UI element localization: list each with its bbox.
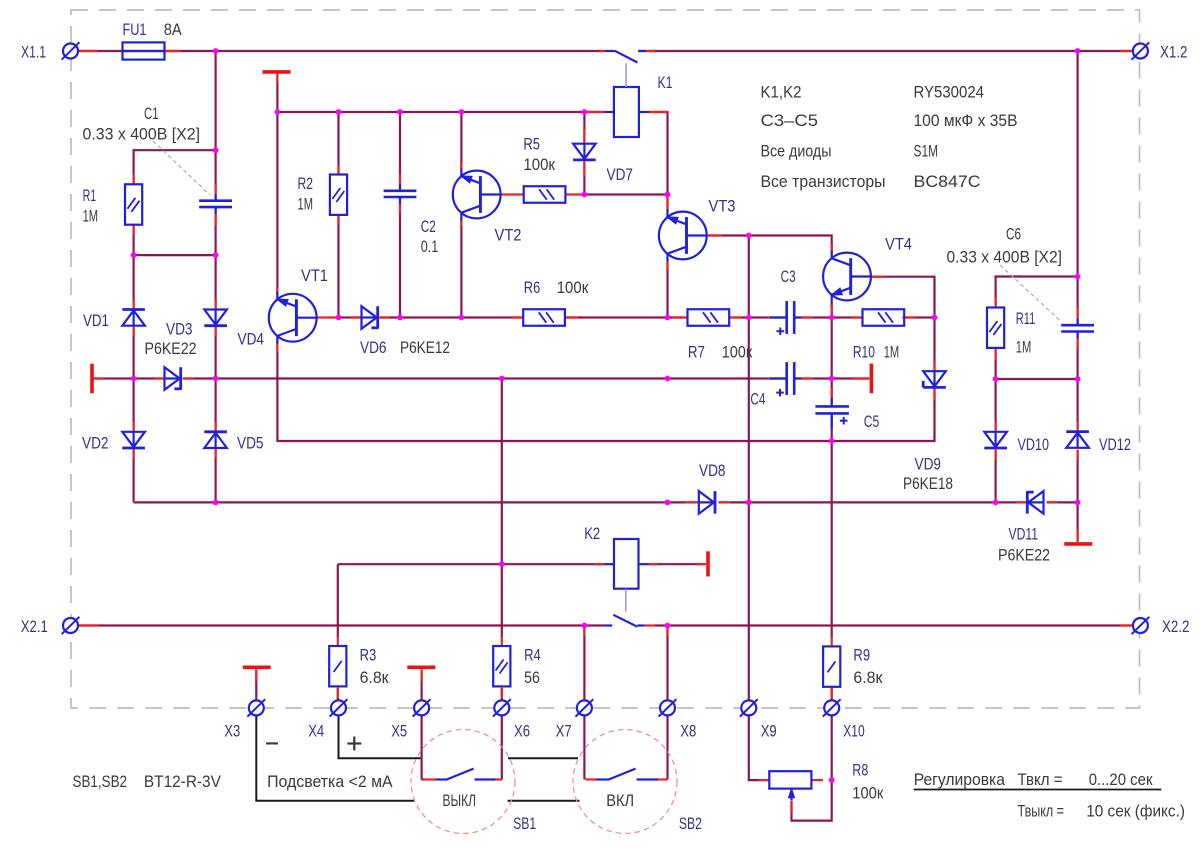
label Podsvetka: [267, 772, 393, 791]
svg-text:0.33 x 400В [X2]: 0.33 x 400В [X2]: [947, 248, 1063, 267]
label K1: [658, 73, 673, 92]
wire VT3 base row y=235.5 to VT4 collector: [707, 236, 832, 254]
label X2.1: [21, 617, 48, 636]
resistor R11: [987, 308, 1004, 348]
label R9 value: [853, 668, 883, 687]
svg-text:R3: R3: [360, 646, 377, 665]
wire X7 column x=584.4: [583, 626, 585, 701]
label R1: [83, 186, 97, 205]
resistor R5: [524, 186, 566, 203]
resistor R2: [330, 175, 347, 215]
resistor R4: [493, 646, 510, 686]
label R5 value: [523, 155, 555, 174]
svg-text:ВКЛ: ВКЛ: [606, 791, 634, 810]
svg-text:Твыкл =: Твыкл =: [1018, 803, 1065, 821]
label R3 value: [360, 668, 390, 687]
plus sign C3: [777, 327, 785, 335]
svg-text:VD6: VD6: [360, 338, 387, 357]
wire X5 stem: [421, 669, 423, 700]
label plus: [347, 737, 361, 751]
label R3: [360, 646, 377, 665]
terminal X5: [413, 699, 431, 716]
wire R3 to X4: [337, 688, 339, 700]
svg-text:VD2: VD2: [82, 434, 109, 453]
diode VD7: [573, 144, 596, 160]
svg-text:VD8: VD8: [699, 461, 726, 480]
wire column x=400 (C2): [399, 112, 401, 318]
transistor VT2: [453, 169, 501, 221]
svg-text:Все диоды: Все диоды: [761, 143, 832, 161]
label R9: [853, 646, 870, 665]
label R5: [523, 135, 540, 154]
svg-text:100к: 100к: [852, 784, 883, 803]
label X1.2: [1160, 43, 1188, 62]
svg-text:S1M: S1M: [914, 143, 939, 161]
svg-text:C6: C6: [1006, 225, 1021, 244]
terminal X3: [247, 699, 265, 716]
label VD10: [1018, 435, 1050, 454]
svg-text:X8: X8: [680, 722, 696, 741]
wire row y=379 right: [996, 378, 1078, 380]
label VD3: [166, 320, 193, 339]
resistor R1: [125, 184, 142, 224]
svg-text:R11: R11: [1016, 309, 1036, 328]
svg-text:X2.1: X2.1: [21, 617, 48, 636]
capacitor C5 (electrolytic): [815, 398, 849, 428]
svg-text:ВЫКЛ: ВЫКЛ: [443, 791, 477, 810]
svg-text:RY530024: RY530024: [914, 84, 985, 102]
svg-text:X6: X6: [514, 722, 530, 741]
resistor R6: [523, 309, 565, 326]
label R11: [1016, 309, 1036, 328]
capacitor C2: [384, 184, 417, 203]
capacitor C4: [770, 362, 802, 395]
power bar above VT1 rail: [263, 70, 291, 74]
svg-text:VD10: VD10: [1018, 435, 1050, 454]
black wire SB1 to SB2 lower: [508, 800, 580, 802]
label regulirovka line2: [1018, 803, 1186, 821]
label R8 value: [852, 784, 883, 803]
terminal X7: [576, 699, 594, 716]
label C6: [1006, 225, 1021, 244]
wire VD7 column x=584.4: [583, 112, 585, 195]
wire R1 top row y=150.2: [134, 149, 216, 151]
red leads: [79, 51, 1133, 813]
svg-text:VD5: VD5: [237, 434, 264, 453]
svg-text:SB2: SB2: [679, 814, 702, 833]
label VD9: [915, 455, 942, 474]
svg-text:X2.2: X2.2: [1162, 617, 1190, 636]
plus sign C5: [840, 417, 848, 425]
svg-text:1M: 1M: [884, 343, 900, 362]
label R11 value: [1016, 338, 1032, 357]
label R2 value: [298, 195, 314, 214]
svg-text:P6KE22: P6KE22: [145, 339, 197, 358]
wire top rail right segment: [638, 50, 1132, 52]
svg-text:X3: X3: [224, 722, 240, 741]
svg-text:FU1: FU1: [123, 20, 147, 39]
capacitor C3: [770, 301, 802, 334]
relay coil K2: [605, 539, 649, 589]
wire X9 column to R8: [749, 502, 770, 780]
pushbutton SB2 circle: [573, 730, 677, 834]
relay coil K1: [605, 87, 650, 137]
svg-text:R2: R2: [298, 174, 314, 193]
svg-text:1M: 1M: [1016, 338, 1032, 357]
diode VD6: [362, 306, 378, 329]
wire C6 column x=1077.6: [1076, 51, 1078, 379]
label VD7: [607, 165, 634, 184]
diode VD1: [122, 310, 145, 326]
svg-text:C3–C5: C3–C5: [761, 112, 819, 130]
label R7: [688, 343, 705, 362]
wire VD10 column x=995.6: [994, 379, 996, 502]
wire SB2 contacts from X7/X8: [584, 716, 667, 780]
svg-text:VT3: VT3: [709, 197, 736, 216]
svg-text:VD1: VD1: [83, 311, 109, 330]
wire mid rail y=378.5: [94, 377, 870, 379]
label R10 value: [884, 343, 900, 362]
wire VT4 emitter down x=831.7: [831, 302, 833, 318]
label VD6: [360, 338, 387, 357]
svg-text:VT1: VT1: [301, 266, 328, 285]
label VT3: [709, 197, 736, 216]
transistor VT1: [269, 292, 317, 344]
svg-text:X10: X10: [843, 722, 865, 741]
wire R9 to X10 and wiper loop: [792, 688, 832, 821]
label R7 value: [722, 343, 753, 362]
wire row y=255.1: [134, 254, 216, 256]
svg-text:X1.2: X1.2: [1160, 43, 1188, 62]
terminal X4: [330, 699, 348, 716]
wire SB1 contacts from X5/X6: [422, 716, 502, 780]
svg-text:X7: X7: [556, 722, 572, 741]
relay K1 armature link: [625, 63, 627, 87]
svg-text:Все транзисторы: Все транзисторы: [761, 173, 886, 191]
leader line C1: [153, 141, 210, 195]
label C2: [421, 217, 436, 236]
svg-text:1M: 1M: [298, 195, 314, 214]
svg-text:0.33 x 400В [X2]: 0.33 x 400В [X2]: [83, 125, 201, 144]
label X7: [556, 722, 572, 741]
svg-text:6.8к: 6.8к: [360, 668, 390, 687]
svg-text:P6KE22: P6KE22: [998, 546, 1050, 565]
terminal X2.2: [1132, 617, 1150, 634]
svg-text:SB1: SB1: [513, 814, 536, 833]
label C5: [864, 412, 880, 431]
label VD11: [1009, 525, 1039, 544]
label K2: [584, 524, 600, 543]
label VD12: [1099, 435, 1131, 454]
underline regulirovka: [914, 789, 1162, 791]
wire X8 column x=667.5: [666, 626, 668, 701]
svg-text:100 мкФ x 35В: 100 мкФ x 35В: [914, 112, 1018, 130]
label C2 value: [421, 237, 439, 256]
label VD8: [699, 461, 726, 480]
svg-text:BT12-R-3V: BT12-R-3V: [144, 772, 222, 791]
wire K1 right pin down x=667.5: [649, 112, 668, 195]
label VT1: [301, 266, 328, 285]
wire VT3 emitter from row y=194.5: [666, 195, 668, 212]
terminal X9: [740, 699, 758, 716]
black wire X3 to SB1 area: [256, 716, 414, 801]
label FU1: [123, 20, 147, 39]
label X2.2: [1162, 617, 1190, 636]
label R6 value: [557, 278, 589, 297]
svg-text:10 сек (фикс.): 10 сек (фикс.): [1086, 803, 1185, 821]
label C1 value: [83, 125, 201, 144]
svg-text:C2: C2: [421, 217, 436, 236]
wire VD9 column x=934.5: [933, 318, 935, 372]
wire VT1 collector to bottom rail y=441: [277, 342, 934, 442]
svg-text:0...20 сек: 0...20 сек: [1089, 771, 1154, 789]
label VD6 value P6KE12: [400, 338, 450, 357]
plus sign C4: [776, 389, 784, 397]
svg-text:R8: R8: [852, 761, 868, 780]
label SB2: [679, 814, 702, 833]
wire column x=277.4 (VT1 emitter rail): [276, 74, 278, 296]
relay K1 switch contact: [605, 51, 646, 63]
label minus: [266, 742, 278, 744]
relay K2 armature link: [625, 589, 627, 612]
capacitor C6: [1061, 319, 1094, 338]
diode VD8: [699, 491, 715, 514]
potentiometer R8: [769, 771, 811, 800]
diode VD5: [204, 432, 227, 448]
svg-text:Твкл =: Твкл =: [1018, 771, 1063, 789]
svg-text:Регулировка: Регулировка: [914, 771, 1006, 789]
diode VD11 (zener): [1027, 491, 1043, 514]
label R8: [852, 761, 868, 780]
label X1.1: [21, 43, 46, 62]
leader line C6: [1000, 265, 1060, 321]
parts table: [761, 84, 1018, 191]
label R1 value: [83, 207, 99, 226]
black wire SB1 to SB2 upper: [508, 757, 578, 759]
power bar above X3: [243, 665, 271, 669]
wire column x=338.5 (R2): [337, 112, 339, 318]
power bar right of K2: [706, 551, 710, 576]
svg-text:6.8к: 6.8к: [853, 668, 883, 687]
diode VD3: [204, 310, 227, 326]
wire VT4 base to column x=934.5: [871, 277, 935, 318]
terminal X2.1: [62, 617, 80, 634]
label VYKL: [443, 791, 477, 810]
label X3: [224, 722, 240, 741]
label VD3 value P6KE22: [145, 339, 197, 358]
wire column x=831.7 C5 branch: [831, 318, 833, 442]
label R6: [524, 278, 541, 297]
label C1: [144, 104, 159, 123]
label VT2: [495, 226, 522, 245]
terminal X1.2: [1132, 42, 1150, 59]
svg-text:X5: X5: [391, 722, 407, 741]
label X6: [514, 722, 530, 741]
terminal X6: [493, 699, 511, 716]
svg-text:VD12: VD12: [1099, 435, 1131, 454]
pushbutton SB1 circle: [411, 730, 515, 834]
label C3: [781, 267, 796, 286]
wire VD12 column x=1077.6: [1076, 379, 1078, 542]
resistor R10: [863, 309, 905, 326]
label X9: [761, 722, 777, 741]
wire column x=133.6 (R1/VD1/VD2 column): [133, 149, 135, 502]
label R4 value: [524, 668, 540, 687]
pushbutton SB2 contact: [597, 769, 659, 780]
svg-text:X1.1: X1.1: [21, 43, 46, 62]
pushbutton SB1 contact: [436, 769, 496, 780]
svg-text:56: 56: [524, 668, 540, 687]
label VD5: [237, 434, 264, 453]
diode VD10: [984, 432, 1007, 448]
label VD2: [82, 434, 109, 453]
black wire X4 to SB1 area: [339, 716, 421, 759]
label 8A: [164, 20, 183, 39]
wire R11 bottom to row y=379: [994, 349, 996, 379]
label regulirovka line1: [914, 771, 1154, 789]
svg-text:R4: R4: [524, 646, 541, 665]
label VD1: [83, 311, 109, 330]
svg-text:1M: 1M: [83, 207, 99, 226]
wire row y=194.5 VD7 bottom: [584, 193, 667, 195]
svg-text:K1: K1: [658, 73, 673, 92]
wire column x=461.4 (VT2 emitter/collector): [460, 112, 462, 318]
resistor R3: [329, 646, 346, 686]
label VD4: [238, 330, 265, 349]
svg-text:100к: 100к: [523, 155, 555, 174]
terminal X1.1: [62, 42, 80, 59]
power bar right of mid rail: [870, 364, 874, 394]
label R4: [524, 646, 541, 665]
svg-text:X4: X4: [308, 722, 324, 741]
power bar left of mid rail: [90, 364, 94, 394]
label VKL: [606, 791, 634, 810]
power bar above X5: [407, 665, 435, 669]
svg-text:C1: C1: [144, 104, 159, 123]
fuse FU1: [123, 42, 165, 59]
svg-text:R5: R5: [523, 135, 540, 154]
wire R11 corner from C6 column: [996, 277, 1078, 308]
svg-text:VT4: VT4: [885, 235, 912, 254]
capacitor C1: [199, 194, 232, 213]
resistor R7: [688, 309, 730, 326]
relay K2 switch contact: [605, 615, 645, 627]
wire column x=215.6 (C1/VD3/VD5 column): [215, 51, 217, 502]
wire K2 right pin to red bar: [649, 563, 707, 565]
power bar below VD12: [1064, 542, 1092, 546]
svg-text:SB1,SB2: SB1,SB2: [73, 772, 128, 791]
svg-text:VD7: VD7: [607, 165, 634, 184]
diode VD4: [165, 367, 181, 390]
svg-text:VD3: VD3: [166, 320, 193, 339]
svg-text:K2: K2: [584, 524, 600, 543]
resistor R9: [823, 646, 840, 686]
label VD11 value P6KE22: [998, 546, 1050, 565]
wire column x=501.8 (from mid rail to R4): [501, 379, 503, 701]
label X8: [680, 722, 696, 741]
svg-text:VT2: VT2: [495, 226, 522, 245]
wire X2.1 rail y=625.5: [79, 624, 1133, 626]
wire bottom bridge rail y=502.4: [134, 501, 1078, 503]
label VT4: [885, 235, 912, 254]
svg-text:C4: C4: [750, 390, 765, 409]
diode VD12: [1066, 432, 1089, 448]
label X5: [391, 722, 407, 741]
label SB1: [513, 814, 536, 833]
svg-text:VD9: VD9: [915, 455, 942, 474]
border frame (dashed): [71, 10, 1140, 708]
terminal X10: [823, 699, 841, 716]
label X10: [843, 722, 865, 741]
svg-text:8A: 8A: [164, 20, 183, 39]
wire VT3 collector down to row y=317.5: [666, 262, 668, 318]
label C6 value: [947, 248, 1063, 267]
svg-text:Подсветка <2 мА: Подсветка <2 мА: [267, 772, 393, 791]
label VD9 value P6KE18: [903, 474, 953, 493]
wire column x=748.8 middle: [748, 318, 750, 503]
svg-text:R7: R7: [688, 343, 705, 362]
svg-text:100к: 100к: [557, 278, 589, 297]
label R2: [298, 174, 314, 193]
svg-text:P6KE18: P6KE18: [903, 474, 953, 493]
svg-text:X9: X9: [761, 722, 777, 741]
svg-text:C5: C5: [864, 412, 880, 431]
svg-text:C3: C3: [781, 267, 796, 286]
diode VD2: [122, 432, 145, 448]
diode VD9 (zener): [923, 371, 946, 387]
wire K2 row y=564.2: [338, 564, 605, 637]
svg-text:K1,K2: K1,K2: [761, 84, 802, 102]
wire base row y=317.5 segments: [339, 316, 935, 318]
svg-text:100к: 100к: [722, 343, 753, 362]
svg-text:R10: R10: [853, 343, 875, 362]
svg-text:R1: R1: [83, 186, 97, 205]
svg-text:P6KE12: P6KE12: [400, 338, 450, 357]
label SB1,SB2 BT12-R-3V: [73, 772, 222, 791]
label C4: [750, 390, 765, 409]
transistor VT3: [659, 210, 707, 262]
svg-text:R6: R6: [524, 278, 541, 297]
svg-text:VD11: VD11: [1009, 525, 1039, 544]
terminal X8: [659, 699, 677, 716]
label X4: [308, 722, 324, 741]
transistor VT4: [823, 251, 871, 303]
wire X3 stem: [255, 669, 257, 700]
wire column x=831.7 down to R9: [831, 441, 833, 637]
svg-text:BC847C: BC847C: [914, 173, 981, 191]
wire column x=748.8 upper: [748, 236, 750, 318]
svg-text:0.1: 0.1: [421, 237, 439, 256]
wire supply row y=112: [277, 111, 604, 113]
svg-text:R9: R9: [853, 646, 870, 665]
svg-text:VD4: VD4: [238, 330, 265, 349]
wire top rail left segment: [79, 50, 605, 52]
label R10: [853, 343, 875, 362]
